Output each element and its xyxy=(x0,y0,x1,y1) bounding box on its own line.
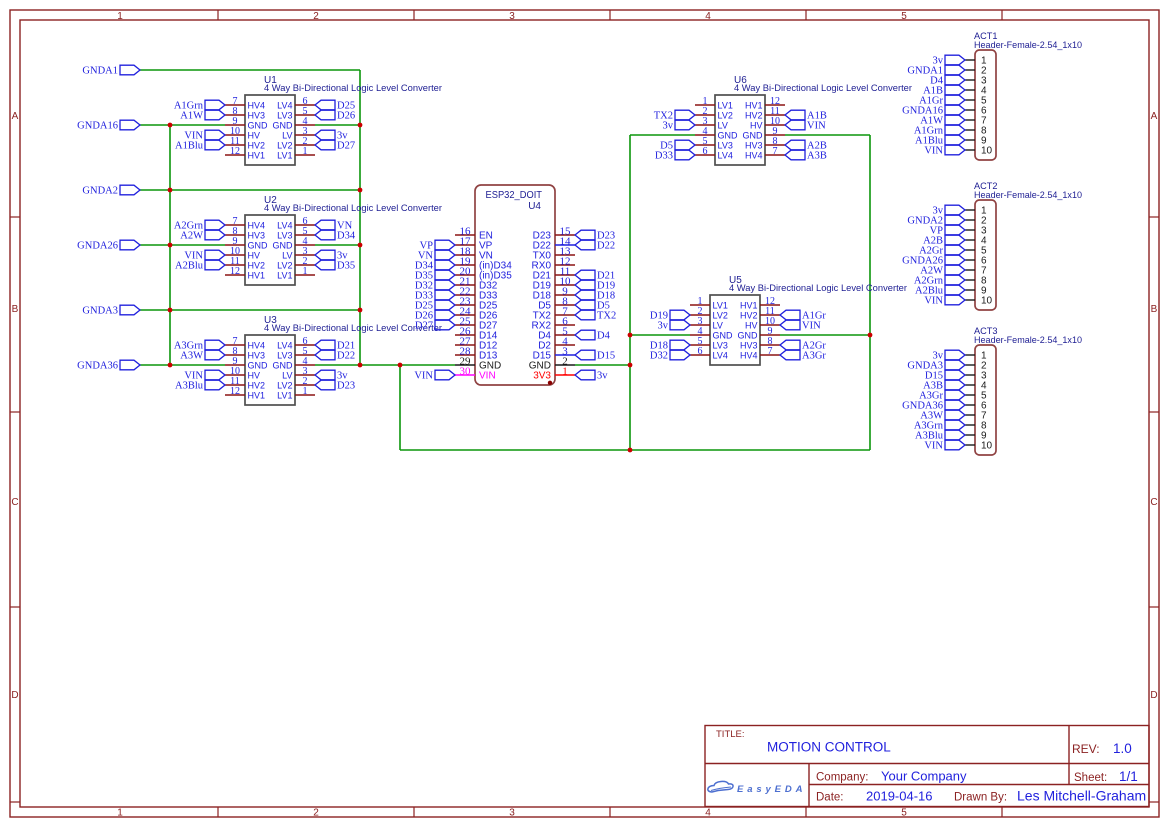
U3 pin 4 GND xyxy=(295,364,315,366)
svg-text:1/1: 1/1 xyxy=(1119,769,1138,784)
svg-text:LV3: LV3 xyxy=(718,140,733,150)
svg-text:GND: GND xyxy=(718,130,739,140)
junction (170,190) xyxy=(168,188,173,193)
svg-text:Your Company: Your Company xyxy=(881,769,967,784)
svg-text:HV3: HV3 xyxy=(248,350,266,360)
svg-text:LV1: LV1 xyxy=(277,150,292,160)
svg-text:D: D xyxy=(1150,690,1157,701)
svg-text:Sheet:: Sheet: xyxy=(1074,772,1107,784)
svg-text:GNDA2: GNDA2 xyxy=(82,186,118,197)
U2 pin 5 LV3 xyxy=(295,234,315,236)
junction (630,450) xyxy=(628,448,633,453)
svg-text:D22: D22 xyxy=(337,351,355,362)
ACT3 pin 8 net A3Grn xyxy=(965,424,975,426)
svg-text:D26: D26 xyxy=(337,111,355,122)
U4 pin 6 RX2 xyxy=(555,324,575,326)
wire vertical x630 xyxy=(629,135,631,450)
svg-text:VIN: VIN xyxy=(924,441,943,452)
U6 pin 2 LV2 xyxy=(695,114,715,116)
ACT3 pin 7 net A3W xyxy=(965,414,975,416)
svg-text:HV2: HV2 xyxy=(248,140,266,150)
svg-text:LV4: LV4 xyxy=(718,150,733,160)
svg-text:LV3: LV3 xyxy=(277,110,292,120)
svg-text:30: 30 xyxy=(460,366,472,378)
svg-text:D34: D34 xyxy=(337,231,356,242)
wire U5 GND left xyxy=(630,334,690,336)
ACT3 pin 3 net D15 xyxy=(965,374,975,376)
ACT1 pin 2 net GNDA1 xyxy=(965,69,975,71)
junction (360,310) xyxy=(358,308,363,313)
U2 pin 8 HV3 xyxy=(225,234,245,236)
svg-text:A1W: A1W xyxy=(180,111,203,122)
U1 pin 6 LV4 xyxy=(295,104,315,106)
svg-text:LV2: LV2 xyxy=(718,110,733,120)
op-amp U4 ESP32_DOIT body xyxy=(475,185,555,385)
svg-text:LV1: LV1 xyxy=(277,390,292,400)
U4 pin 21 D32 xyxy=(455,284,475,286)
U3 pin 8 HV3 xyxy=(225,354,245,356)
svg-text:1: 1 xyxy=(562,366,568,378)
junction (870,335) xyxy=(868,333,873,338)
svg-text:A2Blu: A2Blu xyxy=(175,261,204,272)
U4 pin 28 D13 xyxy=(455,354,475,356)
U3 pin 6 LV4 xyxy=(295,344,315,346)
svg-text:HV1: HV1 xyxy=(248,150,266,160)
svg-text:2: 2 xyxy=(313,808,319,819)
U6 pin 8 HV3 xyxy=(765,144,785,146)
svg-text:4: 4 xyxy=(705,11,711,22)
svg-text:1: 1 xyxy=(303,266,308,277)
svg-text:LV3: LV3 xyxy=(277,350,292,360)
U6 pin 1 LV1 xyxy=(695,104,715,106)
svg-text:7: 7 xyxy=(773,146,778,157)
svg-text:LV4: LV4 xyxy=(277,100,292,110)
svg-text:1.0: 1.0 xyxy=(1113,741,1132,756)
U4 pin 1 3V3 xyxy=(555,374,575,376)
wire GNDA36 right xyxy=(315,364,455,366)
ACT3 pin 1 net 3v xyxy=(965,354,975,356)
svg-text:GND: GND xyxy=(273,120,294,130)
U3 pin 5 LV3 xyxy=(295,354,315,356)
U4 pin 3 D15 xyxy=(555,354,575,356)
svg-text:1: 1 xyxy=(117,11,123,22)
svg-text:D33: D33 xyxy=(655,151,673,162)
net flag GNDA1 xyxy=(120,65,140,75)
ACT3 pin 5 net A3Gr xyxy=(965,394,975,396)
U2 pin 3 LV xyxy=(295,254,315,256)
svg-text:GND: GND xyxy=(738,330,759,340)
U3 pin 7 HV4 xyxy=(225,344,245,346)
svg-text:10: 10 xyxy=(981,146,993,157)
svg-text:VIN: VIN xyxy=(802,321,821,332)
svg-text:HV4: HV4 xyxy=(740,350,758,360)
svg-text:3V3: 3V3 xyxy=(533,371,551,382)
U1 pin 9 GND xyxy=(225,124,245,126)
U6 pin 9 GND xyxy=(765,134,785,136)
ACT2 pin 2 net GNDA2 xyxy=(965,219,975,221)
ACT1 pin 6 net GNDA16 xyxy=(965,109,975,111)
U6 pin 11 HV2 xyxy=(765,114,785,116)
svg-text:LV1: LV1 xyxy=(718,100,733,110)
U2 pin 1 LV1 xyxy=(295,274,315,276)
svg-text:4 Way Bi-Directional Logic Lev: 4 Way Bi-Directional Logic Level Convert… xyxy=(264,83,442,93)
U4 pin 17 VP xyxy=(455,244,475,246)
net flag GNDA26 xyxy=(120,240,140,250)
svg-text:VIN: VIN xyxy=(924,146,943,157)
junction (360,125) xyxy=(358,123,363,128)
U1 pin 12 HV1 xyxy=(225,154,245,156)
svg-text:2019-04-16: 2019-04-16 xyxy=(866,789,933,804)
svg-text:GND: GND xyxy=(743,130,764,140)
U4 pin 4 D2 xyxy=(555,344,575,346)
U4 3V3 pin dot xyxy=(548,381,552,385)
wire GNDA3 xyxy=(140,309,360,311)
U1 pin 5 LV3 xyxy=(295,114,315,116)
wire U6 GND right xyxy=(785,134,870,136)
junction (170,310) xyxy=(168,308,173,313)
U2 pin 12 HV1 xyxy=(225,274,245,276)
svg-text:GNDA3: GNDA3 xyxy=(82,306,118,317)
U4 pin 8 D5 xyxy=(555,304,575,306)
svg-text:5: 5 xyxy=(901,808,907,819)
svg-text:A3W: A3W xyxy=(180,351,203,362)
svg-text:Date:: Date: xyxy=(816,792,844,804)
svg-text:HV: HV xyxy=(750,120,763,130)
U6 pin 6 LV4 xyxy=(695,154,715,156)
U5 pin 1 LV1 xyxy=(690,304,710,306)
U6 pin 10 HV xyxy=(765,124,785,126)
U4 pin 9 D18 xyxy=(555,294,575,296)
svg-text:HV1: HV1 xyxy=(248,270,266,280)
wire vertical x360 xyxy=(359,70,361,365)
svg-text:D32: D32 xyxy=(650,351,668,362)
wire bottom bus y450 xyxy=(400,449,870,451)
svg-text:A: A xyxy=(1151,111,1158,122)
wire GNDA16 left xyxy=(140,124,225,126)
U3 pin 2 LV2 xyxy=(295,384,315,386)
U3 pin 10 HV xyxy=(225,374,245,376)
svg-text:GNDA1: GNDA1 xyxy=(82,66,118,77)
svg-text:HV: HV xyxy=(745,320,758,330)
svg-text:HV2: HV2 xyxy=(745,110,763,120)
svg-text:6: 6 xyxy=(703,146,708,157)
svg-text:VIN: VIN xyxy=(924,296,943,307)
U4 pin 23 D25 xyxy=(455,304,475,306)
junction (400,365) xyxy=(398,363,403,368)
U5 pin 4 GND xyxy=(690,334,710,336)
svg-text:B: B xyxy=(1151,304,1158,315)
junction (170,365) xyxy=(168,363,173,368)
svg-text:LV4: LV4 xyxy=(277,340,292,350)
junction (170,125) xyxy=(168,123,173,128)
wire GNDA26 left xyxy=(140,244,225,246)
svg-text:12: 12 xyxy=(230,146,240,157)
wire vertical x400 xyxy=(399,365,401,450)
svg-text:HV: HV xyxy=(248,370,261,380)
U2 pin 10 HV xyxy=(225,254,245,256)
junction (360,365) xyxy=(358,363,363,368)
U4 pin 12 RX0 xyxy=(555,264,575,266)
U1 pin 8 HV3 xyxy=(225,114,245,116)
svg-text:LV: LV xyxy=(282,370,292,380)
svg-text:VIN: VIN xyxy=(414,371,433,382)
svg-text:D27: D27 xyxy=(337,141,355,152)
U1 pin 4 GND xyxy=(295,124,315,126)
title block grid xyxy=(705,726,1149,807)
svg-text:Drawn By:: Drawn By: xyxy=(954,792,1007,804)
svg-text:D27: D27 xyxy=(415,321,433,332)
junction (170,245) xyxy=(168,243,173,248)
svg-text:1: 1 xyxy=(117,808,123,819)
svg-text:LV1: LV1 xyxy=(277,270,292,280)
U1 pin 3 LV xyxy=(295,134,315,136)
svg-text:4: 4 xyxy=(705,808,711,819)
svg-text:HV4: HV4 xyxy=(248,220,266,230)
U4 pin 7 TX2 xyxy=(555,314,575,316)
U1 pin 10 HV xyxy=(225,134,245,136)
U4 pin 25 D27 xyxy=(455,324,475,326)
svg-text:GNDA36: GNDA36 xyxy=(77,361,118,372)
ACT2 pin 8 net A2Grn xyxy=(965,279,975,281)
U3 pin 11 HV2 xyxy=(225,384,245,386)
net flag GNDA2 xyxy=(120,185,140,195)
U5 pin 2 LV2 xyxy=(690,314,710,316)
svg-text:3v: 3v xyxy=(597,371,608,382)
svg-text:LV3: LV3 xyxy=(277,230,292,240)
U5 pin 5 LV3 xyxy=(690,344,710,346)
svg-text:4 Way Bi-Directional Logic Lev: 4 Way Bi-Directional Logic Level Convert… xyxy=(729,283,907,293)
ACT2 pin 4 net A2B xyxy=(965,239,975,241)
svg-text:LV: LV xyxy=(713,320,723,330)
svg-text:HV3: HV3 xyxy=(740,340,758,350)
wire GNDA26 right xyxy=(315,244,360,246)
U4 pin 19 (in)D34 xyxy=(455,264,475,266)
svg-text:3v: 3v xyxy=(658,321,669,332)
svg-text:HV2: HV2 xyxy=(248,260,266,270)
svg-text:Company:: Company: xyxy=(816,772,868,784)
svg-text:GND: GND xyxy=(273,240,294,250)
svg-text:B: B xyxy=(12,304,19,315)
U1 pin 11 HV2 xyxy=(225,144,245,146)
junction (360,190) xyxy=(358,188,363,193)
U3 pin 1 LV1 xyxy=(295,394,315,396)
U5 pin 9 GND xyxy=(760,334,780,336)
U5 pin 11 HV2 xyxy=(760,314,780,316)
svg-text:D: D xyxy=(11,690,18,701)
junction (630,365) xyxy=(628,363,633,368)
U1 pin 1 LV1 xyxy=(295,154,315,156)
U1 pin 7 HV4 xyxy=(225,104,245,106)
ACT2 pin 9 net A2Blu xyxy=(965,289,975,291)
U2 pin 6 LV4 xyxy=(295,224,315,226)
svg-text:6: 6 xyxy=(698,346,703,357)
svg-text:EasyEDA: EasyEDA xyxy=(737,784,805,795)
svg-text:3: 3 xyxy=(509,11,515,22)
svg-text:D22: D22 xyxy=(597,241,615,252)
U4 pin 30 VIN xyxy=(455,374,475,376)
ACT3 pin 2 net GNDA3 xyxy=(965,364,975,366)
ACT3 pin 10 net VIN xyxy=(965,444,975,446)
wire U5 GND right xyxy=(780,334,870,336)
svg-text:LV2: LV2 xyxy=(277,140,292,150)
svg-text:A3B: A3B xyxy=(807,151,827,162)
svg-text:GND: GND xyxy=(248,120,269,130)
U6 pin 12 HV1 xyxy=(765,104,785,106)
U4 pin 20 (in)D35 xyxy=(455,274,475,276)
svg-text:12: 12 xyxy=(230,266,240,277)
wire GNDA36 left xyxy=(140,364,225,366)
ACT2 pin 5 net A2Gr xyxy=(965,249,975,251)
svg-text:2: 2 xyxy=(313,11,319,22)
svg-text:A: A xyxy=(12,111,19,122)
svg-text:HV1: HV1 xyxy=(740,300,758,310)
U2 pin 7 HV4 xyxy=(225,224,245,226)
U4 pin 13 TX0 xyxy=(555,254,575,256)
wire GNDA16 right xyxy=(315,124,360,126)
U4 pin 15 D23 xyxy=(555,234,575,236)
EasyEDA logo xyxy=(708,781,733,792)
U4 pin 29 GND xyxy=(455,364,475,366)
U6 pin 3 LV xyxy=(695,124,715,126)
ACT1 pin 7 net A1W xyxy=(965,119,975,121)
ACT2 pin 6 net GNDA26 xyxy=(965,259,975,261)
svg-text:ESP32_DOIT: ESP32_DOIT xyxy=(486,190,543,201)
svg-text:D4: D4 xyxy=(597,331,611,342)
ACT2 pin 1 net 3v xyxy=(965,209,975,211)
svg-text:GND: GND xyxy=(248,240,269,250)
svg-text:7: 7 xyxy=(768,346,773,357)
ACT2 pin 7 net A2W xyxy=(965,269,975,271)
svg-text:GND: GND xyxy=(248,360,269,370)
svg-text:1: 1 xyxy=(303,386,308,397)
svg-text:HV2: HV2 xyxy=(740,310,758,320)
ACT1 pin 5 net A1Gr xyxy=(965,99,975,101)
svg-text:HV: HV xyxy=(248,250,261,260)
U4 pin 2 GND xyxy=(555,364,575,366)
svg-text:GNDA26: GNDA26 xyxy=(77,241,118,252)
ACT1 pin 8 net A1Grn xyxy=(965,129,975,131)
net flag GNDA3 xyxy=(120,305,140,315)
svg-text:U4: U4 xyxy=(528,201,541,212)
U5 pin 6 LV4 xyxy=(690,354,710,356)
svg-text:LV4: LV4 xyxy=(713,350,728,360)
U5 pin 8 HV3 xyxy=(760,344,780,346)
svg-text:D23: D23 xyxy=(337,381,355,392)
U4 pin 26 D14 xyxy=(455,334,475,336)
wire ESP32 GND right xyxy=(575,364,630,366)
svg-text:1: 1 xyxy=(303,146,308,157)
svg-text:HV2: HV2 xyxy=(248,380,266,390)
svg-text:GND: GND xyxy=(273,360,294,370)
svg-text:VIN: VIN xyxy=(807,121,826,132)
svg-text:HV4: HV4 xyxy=(248,340,266,350)
svg-text:HV1: HV1 xyxy=(745,100,763,110)
U5 pin 10 HV xyxy=(760,324,780,326)
U4 pin 27 D12 xyxy=(455,344,475,346)
net flag GNDA36 xyxy=(120,360,140,370)
net flag GNDA16 xyxy=(120,120,140,130)
ACT2 pin 3 net VP xyxy=(965,229,975,231)
svg-text:REV:: REV: xyxy=(1072,742,1100,756)
wire vertical x870 xyxy=(869,135,871,450)
svg-text:HV3: HV3 xyxy=(745,140,763,150)
svg-text:Les Mitchell-Graham: Les Mitchell-Graham xyxy=(1017,788,1146,804)
U6 pin 5 LV3 xyxy=(695,144,715,146)
svg-text:12: 12 xyxy=(230,386,240,397)
ACT1 pin 1 net 3v xyxy=(965,59,975,61)
svg-text:LV2: LV2 xyxy=(277,260,292,270)
svg-text:HV3: HV3 xyxy=(248,230,266,240)
U4 pin 18 VN xyxy=(455,254,475,256)
svg-text:C: C xyxy=(1150,497,1157,508)
U4 pin 22 D33 xyxy=(455,294,475,296)
svg-text:10: 10 xyxy=(981,296,993,307)
U4 pin 14 D22 xyxy=(555,244,575,246)
svg-text:HV1: HV1 xyxy=(248,390,266,400)
svg-text:HV4: HV4 xyxy=(745,150,763,160)
U2 pin 11 HV2 xyxy=(225,264,245,266)
ACT3 pin 9 net A3Blu xyxy=(965,434,975,436)
svg-text:10: 10 xyxy=(981,441,993,452)
wire U6 GND left xyxy=(630,134,695,136)
svg-text:LV: LV xyxy=(282,250,292,260)
svg-text:TITLE:: TITLE: xyxy=(716,729,745,740)
U2 pin 2 LV2 xyxy=(295,264,315,266)
svg-text:LV2: LV2 xyxy=(277,380,292,390)
U4 pin 10 D19 xyxy=(555,284,575,286)
U2 pin 4 GND xyxy=(295,244,315,246)
ACT1 pin 10 net VIN xyxy=(965,149,975,151)
U3 pin 3 LV xyxy=(295,374,315,376)
svg-text:A1Blu: A1Blu xyxy=(175,141,204,152)
U4 pin 24 D26 xyxy=(455,314,475,316)
svg-text:GNDA16: GNDA16 xyxy=(77,121,118,132)
svg-text:HV3: HV3 xyxy=(248,110,266,120)
U4 pin 11 D21 xyxy=(555,274,575,276)
junction (630,335) xyxy=(628,333,633,338)
U1 pin 2 LV2 xyxy=(295,144,315,146)
U5 pin 7 HV4 xyxy=(760,354,780,356)
ACT1 pin 9 net A1Blu xyxy=(965,139,975,141)
svg-text:LV4: LV4 xyxy=(277,220,292,230)
ACT1 pin 4 net A1B xyxy=(965,89,975,91)
svg-text:4 Way Bi-Directional Logic Lev: 4 Way Bi-Directional Logic Level Convert… xyxy=(264,203,442,213)
svg-text:4 Way Bi-Directional Logic Lev: 4 Way Bi-Directional Logic Level Convert… xyxy=(734,83,912,93)
svg-text:TX2: TX2 xyxy=(597,311,616,322)
svg-text:LV3: LV3 xyxy=(713,340,728,350)
ACT3 pin 4 net A3B xyxy=(965,384,975,386)
svg-text:D15: D15 xyxy=(597,351,615,362)
ACT3 pin 6 net GNDA36 xyxy=(965,404,975,406)
U5 pin 3 LV xyxy=(690,324,710,326)
svg-text:A3Blu: A3Blu xyxy=(175,381,204,392)
svg-text:A3Gr: A3Gr xyxy=(802,351,826,362)
U4 pin 16 EN xyxy=(455,234,475,236)
svg-text:LV2: LV2 xyxy=(713,310,728,320)
wire GNDA2 xyxy=(140,189,360,191)
svg-text:MOTION CONTROL: MOTION CONTROL xyxy=(767,740,891,755)
svg-text:C: C xyxy=(11,497,18,508)
U6 pin 7 HV4 xyxy=(765,154,785,156)
svg-text:3v: 3v xyxy=(663,121,674,132)
U3 pin 12 HV1 xyxy=(225,394,245,396)
svg-text:HV: HV xyxy=(248,130,261,140)
svg-text:LV1: LV1 xyxy=(713,300,728,310)
U5 pin 12 HV1 xyxy=(760,304,780,306)
wire vertical x170 xyxy=(169,125,171,365)
U4 pin 5 D4 xyxy=(555,334,575,336)
svg-text:LV: LV xyxy=(718,120,728,130)
